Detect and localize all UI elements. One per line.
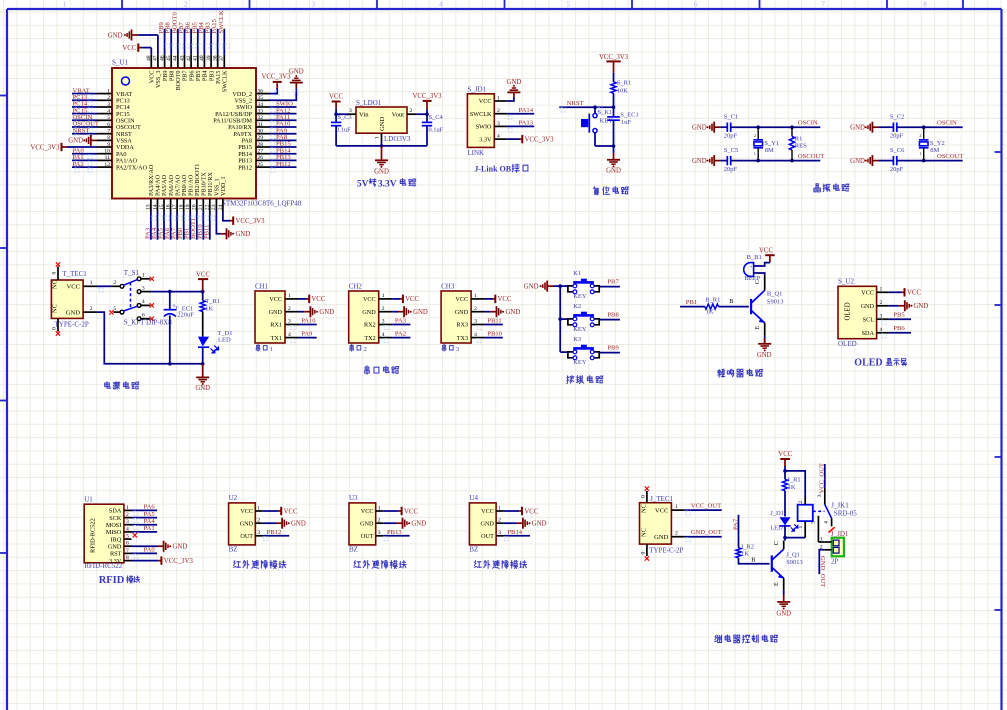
svg-text:B_B1: B_B1 bbox=[747, 254, 762, 261]
svg-text:E: E bbox=[773, 582, 780, 586]
svg-text:4: 4 bbox=[880, 327, 883, 333]
svg-text:VCC: VCC bbox=[329, 94, 343, 101]
title relay control circuit bbox=[715, 635, 722, 642]
svg-text:20pF: 20pF bbox=[890, 166, 904, 173]
svg-text:20pF: 20pF bbox=[724, 166, 738, 173]
wire pin2 to GND bbox=[299, 311, 305, 313]
svg-text:S_C3: S_C3 bbox=[338, 114, 352, 121]
svg-text:PB8: PB8 bbox=[607, 312, 619, 319]
svg-text:GND: GND bbox=[692, 158, 707, 165]
title ir obstacle module bbox=[354, 561, 361, 568]
svg-text:220uF: 220uF bbox=[177, 312, 194, 319]
wire net PA6 bbox=[170, 212, 172, 240]
title button circuit bbox=[567, 376, 574, 384]
wire net PA1 bbox=[72, 159, 97, 161]
pin 4 3.3V bbox=[494, 138, 507, 140]
svg-text:GND: GND bbox=[480, 520, 494, 527]
wire net PB9 bbox=[164, 29, 166, 55]
wire net PB6 bbox=[190, 29, 192, 55]
switch arm 2-1 bbox=[124, 280, 138, 286]
svg-text:T_S1: T_S1 bbox=[124, 269, 140, 277]
wire net PB10 bbox=[202, 212, 204, 240]
title reset circuit bbox=[594, 187, 599, 195]
svg-text:RES: RES bbox=[795, 142, 807, 149]
emitter wire bbox=[783, 578, 785, 589]
wire switch pin3 to rail bbox=[151, 291, 202, 293]
svg-text:PB1: PB1 bbox=[686, 299, 697, 306]
svg-text:VDD_1: VDD_1 bbox=[220, 176, 227, 196]
svg-text:2: 2 bbox=[126, 512, 129, 518]
wire net PB8 bbox=[599, 319, 620, 321]
coil pin 2 bbox=[804, 497, 806, 505]
svg-text:5: 5 bbox=[126, 534, 129, 540]
svg-text:VCC: VCC bbox=[363, 296, 376, 303]
svg-text:VCC: VCC bbox=[655, 507, 669, 514]
pin 6 GND bbox=[124, 545, 132, 547]
svg-text:33: 33 bbox=[258, 108, 264, 114]
svg-text:OSCIN: OSCIN bbox=[937, 119, 957, 126]
rfid U1 RC522 bbox=[84, 504, 124, 563]
wire net PB1 bbox=[189, 212, 191, 240]
svg-text:2: 2 bbox=[90, 306, 93, 312]
pin 1 VCC bbox=[671, 509, 684, 511]
svg-text:3: 3 bbox=[382, 319, 385, 325]
wire net VCC_OUT bbox=[685, 509, 722, 511]
wire VCC to Vin bbox=[335, 109, 337, 123]
svg-text:VCC_3V3: VCC_3V3 bbox=[525, 136, 555, 143]
svg-text:VCC: VCC bbox=[455, 296, 468, 303]
pin 39 PB3 bbox=[210, 55, 212, 68]
mcu U1 STM32F103C8T6 body bbox=[112, 68, 256, 199]
svg-text:TYPE-C-2P: TYPE-C-2P bbox=[55, 321, 89, 329]
wire net PB0 bbox=[183, 212, 185, 240]
svg-text:VCC: VCC bbox=[284, 508, 298, 515]
svg-text:3: 3 bbox=[498, 530, 501, 536]
svg-text:RFID-RC522: RFID-RC522 bbox=[90, 518, 97, 553]
wire pin4 to VCC_3V3 bbox=[507, 138, 520, 140]
ground bbox=[758, 343, 771, 345]
wire net PB5 bbox=[889, 318, 911, 320]
svg-text:3: 3 bbox=[257, 530, 260, 536]
svg-text:BZ: BZ bbox=[229, 546, 238, 554]
svg-text:S_U1: S_U1 bbox=[112, 59, 128, 67]
pin 20 PB2/BOOT1 bbox=[196, 199, 198, 212]
svg-text:B_R1: B_R1 bbox=[705, 297, 720, 304]
pin 1 GND bbox=[381, 133, 383, 142]
svg-text:PA5: PA5 bbox=[144, 511, 156, 518]
svg-text:8M: 8M bbox=[765, 147, 774, 154]
wire pin2 to GND bbox=[504, 522, 517, 524]
svg-text:BZ: BZ bbox=[469, 546, 478, 554]
svg-text:PA6: PA6 bbox=[144, 504, 156, 511]
wire TEC GND down and along bottom bbox=[97, 312, 202, 364]
ground bbox=[226, 228, 228, 239]
ldo S_LDO1 body bbox=[356, 107, 407, 133]
wire pin1 to VCC bbox=[485, 298, 493, 300]
svg-text:S_JD1: S_JD1 bbox=[467, 85, 486, 93]
svg-text:CH2: CH2 bbox=[349, 282, 363, 290]
wire net PB10 bbox=[485, 337, 503, 339]
wire net PA9 bbox=[299, 337, 317, 339]
pin 23 VSS_1 bbox=[215, 199, 217, 212]
svg-text:R1: R1 bbox=[795, 135, 803, 142]
wire pin1 to VCC bbox=[504, 510, 520, 512]
svg-text:32: 32 bbox=[258, 115, 264, 121]
pin 31 PA10/RX bbox=[256, 126, 269, 128]
svg-text:U1: U1 bbox=[84, 496, 93, 504]
svg-text:GND: GND bbox=[374, 169, 389, 176]
power VCC_3V3 bbox=[521, 135, 523, 143]
svg-text:2: 2 bbox=[107, 95, 110, 101]
svg-text:20pF: 20pF bbox=[890, 133, 904, 140]
wire LED to collector node bbox=[785, 526, 805, 538]
svg-text:VCC_3V3: VCC_3V3 bbox=[412, 93, 442, 100]
transistor B_Q1 S9013 bbox=[750, 299, 752, 314]
svg-text:4: 4 bbox=[439, 1, 443, 9]
svg-text:43: 43 bbox=[179, 55, 185, 61]
svg-text:VCC_3V3: VCC_3V3 bbox=[30, 144, 60, 151]
wire to base bbox=[719, 306, 749, 308]
svg-text:GND: GND bbox=[532, 521, 547, 528]
wire bbox=[872, 160, 878, 162]
connector CH1 serial bbox=[255, 291, 285, 343]
svg-text:VCC: VCC bbox=[778, 451, 792, 458]
ground bbox=[871, 122, 873, 133]
wire net SWCLK bbox=[223, 29, 225, 55]
wire net PB5 bbox=[197, 29, 199, 55]
wire net PB14 bbox=[269, 153, 297, 155]
svg-text:GND: GND bbox=[319, 309, 334, 316]
wire pin5 to connector pin1 bbox=[817, 541, 819, 542]
svg-text:SDA: SDA bbox=[109, 508, 122, 515]
pin 8 VSSA bbox=[97, 139, 112, 141]
svg-text:TYPE-C-2P: TYPE-C-2P bbox=[649, 546, 683, 554]
svg-text:VCC: VCC bbox=[196, 271, 210, 278]
pin 4 TX3 bbox=[471, 337, 485, 339]
svg-text:15: 15 bbox=[159, 204, 165, 210]
wire pin1 to GND bbox=[507, 97, 514, 101]
pin 16 PA6/AO bbox=[170, 199, 172, 212]
svg-text:27: 27 bbox=[258, 149, 264, 155]
svg-text:GND: GND bbox=[269, 309, 283, 316]
svg-text:7: 7 bbox=[107, 129, 110, 135]
svg-text:20pF: 20pF bbox=[724, 133, 738, 140]
svg-text:OLED: OLED bbox=[854, 357, 882, 368]
svg-text:OLED: OLED bbox=[838, 340, 857, 348]
pin 35 VSS_2 bbox=[256, 99, 269, 101]
svg-text:OSCOUT: OSCOUT bbox=[798, 153, 824, 160]
power VCC to pin 48 bbox=[142, 47, 152, 49]
pin 4 TX1 bbox=[285, 337, 299, 339]
svg-text:OUT: OUT bbox=[361, 533, 374, 540]
pin 1 VCC bbox=[83, 285, 97, 287]
wire net PB12 bbox=[269, 166, 297, 168]
svg-text:1: 1 bbox=[378, 505, 381, 511]
resistor R1 RES bbox=[791, 127, 793, 136]
svg-text:9: 9 bbox=[107, 142, 110, 148]
pin 5 IRQ bbox=[124, 538, 132, 540]
wire net PB13 bbox=[383, 535, 409, 537]
pin 44 BOOT0 bbox=[177, 55, 179, 68]
svg-text:8: 8 bbox=[923, 1, 927, 9]
pin 24 VDD_1 bbox=[222, 199, 224, 212]
svg-text:1uF: 1uF bbox=[621, 119, 632, 126]
svg-text:J-Link OB: J-Link OB bbox=[474, 164, 511, 173]
svg-text:TX1: TX1 bbox=[271, 335, 282, 342]
svg-text:PB6: PB6 bbox=[893, 325, 905, 332]
pin 4 MISO bbox=[124, 531, 132, 533]
svg-text:GND: GND bbox=[455, 309, 469, 316]
svg-text:PA7: PA7 bbox=[733, 518, 740, 530]
svg-text:1K: 1K bbox=[741, 550, 749, 557]
svg-text:BZ: BZ bbox=[349, 546, 358, 554]
svg-text:VCC_3V3: VCC_3V3 bbox=[164, 558, 194, 565]
power VCC bbox=[904, 288, 906, 296]
pin 3 OUT bbox=[255, 535, 262, 537]
wire bbox=[897, 160, 963, 162]
wire VSS_1 pin 23 to GND bbox=[216, 212, 220, 234]
svg-text:PA13: PA13 bbox=[519, 120, 534, 127]
svg-text:29: 29 bbox=[258, 135, 264, 141]
svg-text:1: 1 bbox=[820, 537, 823, 543]
wire net PA4 bbox=[157, 212, 159, 240]
svg-text:VCC: VCC bbox=[405, 296, 419, 303]
svg-text:3.3V: 3.3V bbox=[109, 558, 122, 565]
svg-text:1: 1 bbox=[474, 293, 477, 299]
svg-text:VCC_3V3: VCC_3V3 bbox=[599, 54, 629, 61]
wire net PB11 bbox=[209, 212, 211, 240]
pin 2 SWCLK bbox=[494, 113, 507, 115]
wire net PA10 bbox=[269, 126, 297, 128]
power VCC bbox=[769, 255, 771, 262]
capacitor T_EC1 220uF bbox=[169, 292, 171, 310]
led T_D1 bbox=[198, 337, 209, 347]
svg-text:1: 1 bbox=[375, 136, 381, 139]
svg-text:1: 1 bbox=[919, 151, 921, 156]
capacitor S_C5 20pF bbox=[726, 156, 728, 165]
wire net PB12 bbox=[263, 535, 289, 537]
relay switch dashed link bbox=[813, 510, 825, 512]
wire bbox=[594, 133, 596, 146]
sheet border frame bbox=[6, 9, 8, 710]
svg-text:PB14: PB14 bbox=[507, 529, 522, 536]
pin 2 SCK bbox=[124, 517, 132, 519]
svg-text:48: 48 bbox=[146, 55, 152, 61]
wire to base bbox=[739, 558, 770, 564]
switch pin 3 bbox=[140, 291, 151, 293]
wire net VCC_OUT vertical bbox=[824, 464, 826, 488]
svg-text:GND: GND bbox=[850, 158, 865, 165]
wire pin2 to GND bbox=[392, 311, 398, 313]
capacitor S_C4 0.1uF bbox=[426, 114, 428, 122]
resistor B_R1 1K bbox=[705, 304, 719, 309]
pin 34 SWIO bbox=[256, 106, 269, 108]
wire net NRST bbox=[72, 133, 97, 135]
svg-text:8: 8 bbox=[126, 555, 129, 561]
svg-text:0: 0 bbox=[640, 495, 646, 498]
svg-text:30: 30 bbox=[258, 129, 264, 135]
svg-text:GND: GND bbox=[379, 116, 386, 131]
svg-text:PB12: PB12 bbox=[267, 529, 282, 536]
svg-text:GND: GND bbox=[360, 520, 374, 527]
svg-text:TX2: TX2 bbox=[364, 335, 375, 342]
ground bbox=[402, 518, 404, 529]
wire net SWIO bbox=[269, 106, 297, 108]
svg-text:K3: K3 bbox=[573, 336, 581, 343]
svg-text:7: 7 bbox=[821, 1, 825, 9]
svg-text:1K: 1K bbox=[205, 306, 213, 313]
svg-text:8: 8 bbox=[107, 135, 110, 141]
svg-text:VCC: VCC bbox=[66, 284, 80, 291]
wire pin1 to VCC bbox=[392, 298, 400, 300]
svg-text:10K: 10K bbox=[617, 88, 629, 95]
pin 9 VDDA bbox=[97, 146, 112, 148]
svg-text:4: 4 bbox=[126, 526, 129, 532]
switch pin 4 bbox=[140, 304, 150, 306]
ground bbox=[871, 155, 873, 166]
power VCC bbox=[494, 295, 496, 303]
coil pin 1 bbox=[804, 521, 806, 538]
wire net GND_OUT bbox=[685, 536, 722, 538]
svg-text:C: C bbox=[773, 541, 780, 545]
svg-text:47: 47 bbox=[153, 55, 159, 61]
svg-text:2: 2 bbox=[497, 108, 500, 114]
svg-text:GND: GND bbox=[240, 520, 254, 527]
svg-text:0.1uF: 0.1uF bbox=[336, 126, 351, 133]
svg-text:1: 1 bbox=[675, 504, 678, 510]
svg-text:28: 28 bbox=[258, 142, 264, 148]
svg-text:2: 2 bbox=[257, 518, 260, 524]
pin 2 GND bbox=[877, 305, 889, 307]
svg-text:J_R1: J_R1 bbox=[787, 477, 800, 484]
pin 3 OUT bbox=[496, 535, 504, 537]
display S_U2 OLED bbox=[838, 286, 877, 338]
wire bbox=[714, 160, 720, 162]
svg-text:0.1uF: 0.1uF bbox=[429, 126, 444, 133]
pin 7 RST bbox=[124, 552, 132, 554]
svg-text:0: 0 bbox=[52, 272, 58, 275]
pin 2 GND bbox=[255, 522, 262, 524]
svg-text:1: 1 bbox=[880, 287, 883, 293]
pin 2 GND bbox=[83, 311, 97, 313]
pin 2 Vout bbox=[407, 113, 417, 115]
pin 3 OUT bbox=[376, 535, 384, 537]
wire net PB7 bbox=[599, 286, 620, 288]
power VCC bbox=[280, 507, 282, 515]
svg-text:VCC_3V3: VCC_3V3 bbox=[236, 218, 266, 225]
svg-text:PA10: PA10 bbox=[301, 318, 316, 325]
wire pin6 GND bbox=[132, 545, 158, 547]
pin 11 PA1/AO bbox=[97, 159, 112, 161]
svg-text:E: E bbox=[754, 326, 761, 330]
ground bbox=[309, 306, 311, 317]
svg-text:6: 6 bbox=[107, 122, 110, 128]
title ir obstacle module bbox=[474, 561, 481, 568]
svg-text:35: 35 bbox=[258, 95, 264, 101]
svg-text:PA2: PA2 bbox=[395, 331, 406, 338]
power VCC_3V3 bbox=[423, 100, 432, 102]
wire VDD_1 pin 24 to VCC_3V3 bbox=[223, 212, 230, 221]
svg-text:4: 4 bbox=[382, 332, 385, 338]
svg-text:18: 18 bbox=[179, 204, 185, 210]
relay switch arm bbox=[825, 505, 832, 519]
wire net PB3 bbox=[210, 29, 212, 55]
svg-text:3.3V: 3.3V bbox=[378, 180, 397, 190]
svg-text:1K: 1K bbox=[706, 308, 714, 315]
wire pin1 to VCC bbox=[263, 510, 279, 512]
title crystal circuit bbox=[814, 184, 820, 192]
svg-text:1: 1 bbox=[798, 526, 804, 529]
svg-text:4: 4 bbox=[142, 299, 145, 305]
svg-text:1: 1 bbox=[257, 505, 260, 511]
svg-text:25: 25 bbox=[258, 162, 264, 168]
svg-text:PB12: PB12 bbox=[276, 161, 291, 168]
ground bbox=[290, 82, 303, 84]
ground bbox=[613, 153, 615, 160]
wire emitter to GND bbox=[764, 336, 766, 344]
svg-text:J_Q1: J_Q1 bbox=[786, 551, 800, 558]
svg-text:37: 37 bbox=[219, 55, 225, 61]
ground bbox=[713, 155, 715, 166]
capacitor S_C6 20pF bbox=[892, 156, 894, 165]
resistor J_R1 1K bbox=[784, 471, 786, 479]
power VCC bbox=[332, 101, 341, 103]
no connect X pin 4 bbox=[829, 527, 835, 532]
wire bbox=[784, 491, 786, 517]
wire net VBAT bbox=[72, 93, 97, 95]
svg-text:PA3: PA3 bbox=[395, 318, 407, 325]
wire to K1 bbox=[560, 285, 568, 287]
svg-text:2: 2 bbox=[754, 133, 756, 138]
svg-text:OUT: OUT bbox=[481, 533, 494, 540]
svg-text:B_Q1: B_Q1 bbox=[767, 291, 783, 298]
svg-text:VCC: VCC bbox=[361, 508, 374, 515]
svg-text:GND: GND bbox=[507, 79, 522, 86]
power VCC bbox=[402, 295, 404, 303]
svg-text:S_EC1: S_EC1 bbox=[620, 111, 638, 118]
wire net PC13 bbox=[72, 99, 97, 101]
wire net PA2 bbox=[392, 337, 410, 339]
svg-text:10: 10 bbox=[104, 149, 110, 155]
pin 13 PA3/RX/AO bbox=[150, 199, 152, 212]
connector CH2 serial bbox=[349, 291, 379, 343]
svg-text:LDO3V3: LDO3V3 bbox=[384, 135, 411, 143]
pin 1 VCC bbox=[471, 298, 485, 300]
wire ground rail bbox=[336, 145, 427, 147]
svg-text:0: 0 bbox=[640, 552, 646, 555]
ground bbox=[713, 122, 715, 133]
svg-text:VCC: VCC bbox=[907, 290, 921, 297]
svg-text:PA0: PA0 bbox=[144, 547, 156, 554]
pin 36 VDD_2 bbox=[256, 93, 269, 95]
svg-text:5: 5 bbox=[113, 306, 116, 312]
svg-text:1: 1 bbox=[754, 151, 756, 156]
svg-text:2: 2 bbox=[184, 1, 188, 9]
pin 19 PB1/AO bbox=[189, 199, 191, 212]
wire net PA8 bbox=[269, 139, 297, 141]
svg-text:4: 4 bbox=[824, 521, 830, 524]
svg-text:2P: 2P bbox=[831, 558, 839, 566]
wire net PA9 bbox=[269, 133, 297, 135]
svg-text:PA2: PA2 bbox=[73, 161, 84, 168]
svg-text:2: 2 bbox=[919, 133, 921, 138]
svg-text:23: 23 bbox=[211, 204, 217, 210]
svg-text:1: 1 bbox=[270, 346, 273, 353]
svg-text:PA1: PA1 bbox=[144, 525, 155, 532]
pin 2 GND bbox=[379, 311, 393, 313]
wire net PA2 bbox=[72, 166, 97, 168]
svg-text:5: 5 bbox=[810, 521, 816, 524]
